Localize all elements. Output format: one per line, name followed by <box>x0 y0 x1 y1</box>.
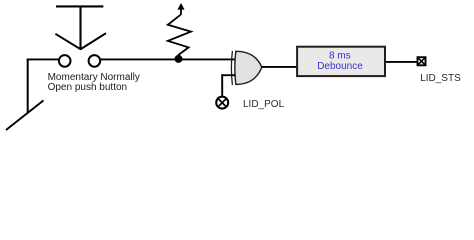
wire: main node segment from right contact to XOR input <box>101 58 236 60</box>
svg-text:Open push button: Open push button <box>48 82 128 93</box>
port LID_POL: circle-X input symbol <box>216 97 228 109</box>
resistor R1 (pull-up) zigzag <box>168 14 191 58</box>
junction dot on main node <box>175 55 183 63</box>
debounce block: 8 ms Debounce <box>297 47 385 76</box>
switch S1: actuator top bar <box>56 5 103 7</box>
resistor R1: top lead <box>180 9 182 15</box>
switch S1: actuator stem <box>79 6 81 49</box>
svg-text:LID_STS: LID_STS <box>420 73 461 84</box>
port LID_STS: box-X output symbol <box>418 57 426 65</box>
wire: left vertical drop from switch node <box>27 59 29 113</box>
wire: diagonal off-page segment bottom-left <box>6 100 44 130</box>
power arrow (to supply) <box>177 3 184 10</box>
wire: debounce output to LID_STS port <box>386 61 417 63</box>
svg-text:LID_POL: LID_POL <box>243 99 285 110</box>
switch S1: left contact circle <box>59 55 71 67</box>
wire: XOR output to debounce block <box>262 66 298 68</box>
wire: horizontal segment from corner to left contact <box>27 58 59 60</box>
switch S1: actuator left arm <box>55 34 80 50</box>
svg-text:Debounce: Debounce <box>317 61 363 72</box>
svg-text:8 ms: 8 ms <box>329 51 351 62</box>
XOR gate U1: input leading curve <box>231 51 232 85</box>
wire: vertical to LID_POL port <box>221 74 223 96</box>
wire: XOR lower input stub <box>221 74 235 76</box>
XOR gate U1: body <box>235 51 262 84</box>
switch S1: right contact circle <box>89 55 101 67</box>
switch S1: actuator right arm <box>80 33 106 49</box>
